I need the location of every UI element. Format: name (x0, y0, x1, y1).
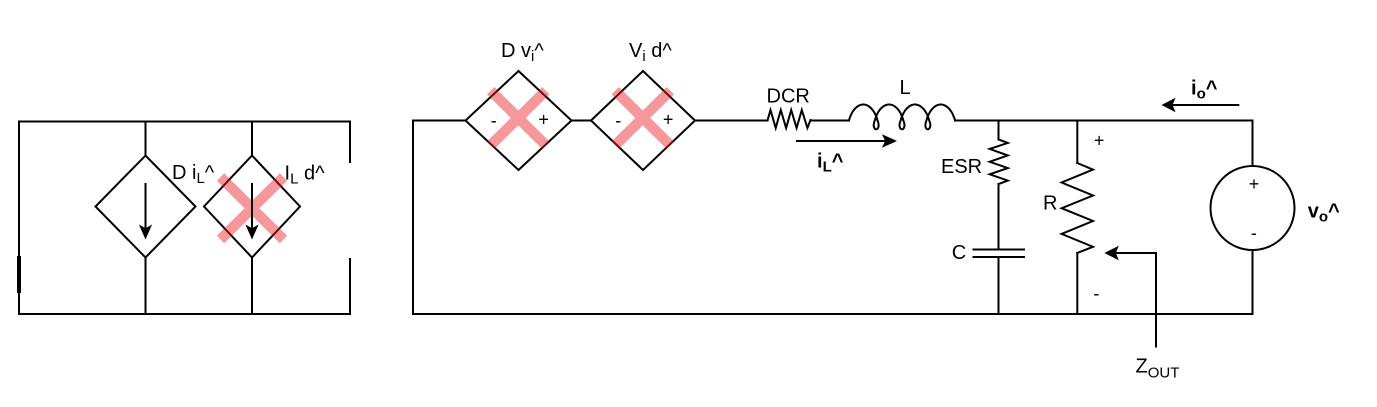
source D vi diamond (466, 71, 572, 170)
pink X over D vi source (491, 91, 546, 146)
resistor ESR (990, 139, 1008, 184)
arrow io head (1162, 98, 1176, 113)
arrow of D iL source (145, 184, 147, 229)
arrow of IL d source (251, 184, 253, 229)
wire top left to source 1 (413, 120, 466, 122)
wire DCR to L (811, 120, 850, 122)
svg-text:+: + (1249, 174, 1260, 194)
wire branch 1 bottom (145, 258, 147, 315)
wire ESR branch top (998, 121, 1000, 140)
svg-text:ESR: ESR (941, 156, 982, 178)
resistor DCR (768, 110, 811, 128)
svg-text:+: + (663, 110, 674, 130)
svg-text:L: L (900, 77, 911, 99)
wire R to bottom (1076, 253, 1078, 314)
source vo circle (1211, 166, 1295, 250)
svg-text:ZOUT: ZOUT (1136, 356, 1180, 382)
current source D iL diamond (96, 156, 196, 258)
svg-text:C: C (952, 242, 966, 264)
wire source vo vertical bottom (1252, 250, 1254, 314)
current source IL d diamond (204, 156, 300, 258)
wire left-circuit right edge top segment (349, 122, 351, 163)
svg-text:-: - (1093, 284, 1099, 304)
capacitor C plates (974, 250, 1025, 258)
svg-text:IL d^: IL d^ (285, 163, 326, 188)
resistor R (1062, 163, 1093, 253)
svg-text:vo^: vo^ (1308, 201, 1340, 226)
svg-text:D iL^: D iL^ (172, 162, 215, 187)
wire right-circuit bottom (413, 313, 1253, 315)
svg-text:-: - (615, 111, 621, 131)
svg-text:-: - (491, 111, 497, 131)
inductor L (849, 105, 955, 130)
wire left-circuit outer loop (19, 122, 350, 315)
arrow iL line (797, 140, 884, 142)
wire C to bottom (998, 257, 1000, 314)
svg-text:iL^: iL^ (817, 151, 844, 176)
source Vi d diamond (591, 71, 695, 170)
svg-text:DCR: DCR (767, 86, 810, 108)
wire ESR to C (998, 184, 1000, 249)
wire R branch top (1076, 121, 1078, 164)
wire branch 2 bottom (251, 258, 253, 315)
svg-text:D vi^: D vi^ (501, 40, 544, 65)
wire branch 2 top (251, 122, 253, 156)
svg-text:-: - (1251, 223, 1257, 243)
arrow Zout head (1104, 246, 1118, 261)
svg-text:+: + (1094, 131, 1105, 151)
wire source vo vertical top (1252, 121, 1254, 167)
wire branch 1 top (145, 122, 147, 156)
wire left-circuit left edge thick segment (17, 258, 21, 291)
svg-text:Vi d^: Vi d^ (629, 40, 672, 65)
pink X over Vi d source (615, 91, 670, 146)
arrow Zout line (1116, 253, 1156, 347)
wire L to output node (955, 120, 1253, 122)
svg-text:+: + (538, 110, 549, 130)
arrow iL head (882, 134, 897, 148)
wire between sources (572, 120, 592, 122)
svg-text:io^: io^ (1191, 78, 1218, 103)
wire source2 to DCR (695, 120, 768, 122)
pink X over IL d source (221, 177, 284, 240)
arrow io line (1173, 104, 1238, 106)
wire right-circuit left vertical (412, 121, 414, 314)
svg-text:R: R (1043, 193, 1057, 215)
wire left-circuit right edge bottom segment (349, 259, 351, 314)
